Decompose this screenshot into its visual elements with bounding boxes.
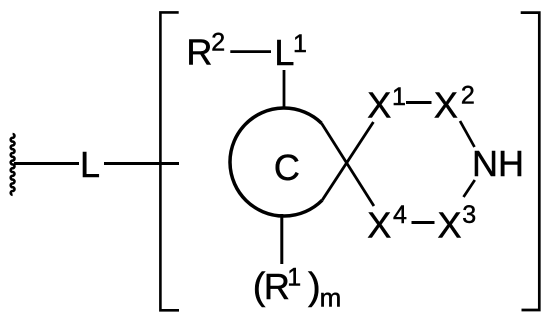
wire L1-ring bbox=[283, 70, 286, 109]
svg-text:L: L bbox=[274, 32, 294, 73]
svg-text:m: m bbox=[320, 283, 342, 313]
svg-text:1: 1 bbox=[392, 83, 406, 111]
svg-text:X: X bbox=[438, 205, 462, 246]
wavy attachment bond bbox=[11, 134, 15, 195]
spiro bond to X4 bbox=[322, 123, 374, 206]
wire X3-X4 bbox=[412, 221, 435, 224]
wire bbox=[14, 162, 79, 165]
svg-text:1: 1 bbox=[293, 30, 307, 58]
wire X2-NH bbox=[460, 121, 475, 147]
right bracket bbox=[521, 13, 540, 310]
svg-text:X: X bbox=[434, 85, 458, 126]
svg-text:R: R bbox=[186, 32, 212, 73]
svg-text:2: 2 bbox=[211, 29, 225, 57]
wire R2-L1 bbox=[230, 50, 271, 53]
wire ring-R1 bbox=[280, 214, 283, 264]
svg-text:C: C bbox=[274, 147, 300, 188]
ring C circle bbox=[230, 108, 322, 216]
svg-text:2: 2 bbox=[461, 82, 475, 110]
svg-text:4: 4 bbox=[393, 201, 407, 229]
svg-text:R: R bbox=[264, 266, 290, 307]
wire NH-X3 bbox=[464, 180, 475, 197]
left bracket bbox=[160, 12, 179, 310]
wire bbox=[104, 162, 179, 165]
svg-text:1: 1 bbox=[287, 264, 301, 292]
wire X1-X2 bbox=[406, 101, 432, 104]
svg-text:3: 3 bbox=[462, 201, 476, 229]
svg-text:NH: NH bbox=[472, 143, 524, 184]
svg-text:L: L bbox=[80, 144, 100, 185]
svg-text:X: X bbox=[367, 85, 391, 126]
svg-text:X: X bbox=[367, 205, 391, 246]
spiro bond to X1 bbox=[322, 122, 373, 200]
